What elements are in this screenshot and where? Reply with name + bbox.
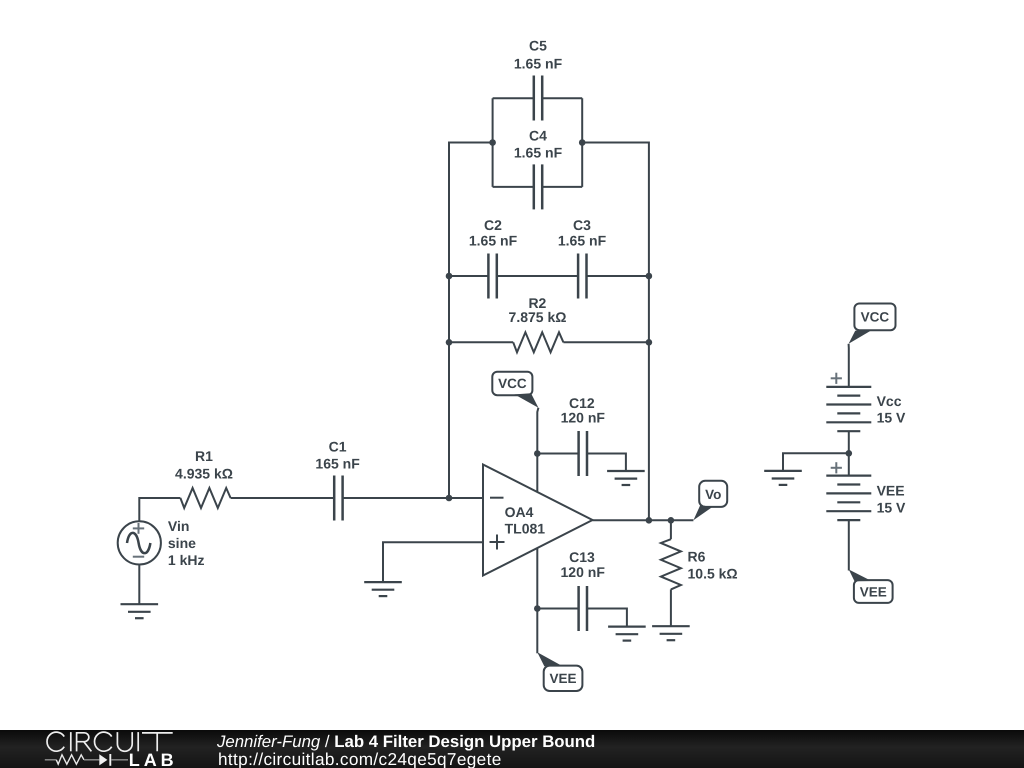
node feedback-output [646, 517, 653, 524]
svg-text:VEE: VEE [860, 584, 887, 599]
wire battery to VEE flag [848, 520, 850, 570]
ground battery [764, 471, 802, 485]
node C2 row left [446, 273, 453, 280]
wire loop left vertical [492, 98, 494, 187]
resistor R2 [509, 295, 567, 352]
svg-text:C5: C5 [529, 38, 547, 54]
wire battery mid [848, 431, 850, 475]
svg-text:4.935 kΩ: 4.935 kΩ [175, 466, 233, 482]
ground C12 [607, 471, 645, 485]
svg-text:LAB: LAB [129, 750, 178, 768]
wire mid right [582, 143, 649, 521]
svg-text:1.65 nF: 1.65 nF [558, 232, 607, 248]
capacitor C1 [315, 439, 360, 521]
node C3 row right [646, 273, 653, 280]
logo resistor [45, 755, 100, 764]
wire mid left [449, 143, 493, 499]
wire VCC flag to battery [848, 344, 850, 387]
node R6 top [668, 517, 675, 524]
svg-text:Vin: Vin [168, 518, 190, 534]
flag VEE battery [849, 570, 893, 603]
node loop right [579, 139, 586, 146]
wire node to C13 [537, 608, 578, 610]
svg-text:C1: C1 [329, 439, 347, 455]
svg-text:120 nF: 120 nF [561, 410, 606, 426]
svg-text:Vo: Vo [705, 487, 721, 502]
svg-text:120 nF: 120 nF [561, 564, 606, 580]
wire VCC stub [537, 408, 538, 492]
node loop left [489, 139, 496, 146]
node R2 row right [646, 339, 653, 346]
wire loop right vertical [581, 98, 583, 187]
wire mid to ground [783, 453, 849, 471]
resistor R1 [175, 448, 233, 508]
node inverting input [446, 495, 453, 502]
wire C2-C3 [498, 275, 578, 277]
wire R2 row right [563, 341, 649, 343]
svg-text:10.5 kΩ: 10.5 kΩ [688, 566, 738, 582]
ground Vin [121, 565, 159, 619]
svg-text:http://circuitlab.com/c24qe5q7: http://circuitlab.com/c24qe5q7egete [218, 749, 502, 768]
wire output [593, 519, 694, 521]
wire plus input [383, 542, 483, 582]
svg-text:C3: C3 [573, 217, 591, 233]
svg-text:sine: sine [168, 535, 196, 551]
svg-text:1.65 nF: 1.65 nF [514, 145, 563, 161]
ground plus input [364, 582, 402, 596]
wire bottom loop left [493, 186, 533, 188]
node VCC stub [534, 450, 541, 457]
svg-text:7.875 kΩ: 7.875 kΩ [509, 309, 567, 325]
wire R1 to C1 [231, 497, 334, 499]
svg-text:1 kHz: 1 kHz [168, 552, 205, 568]
capacitor C3 [558, 217, 607, 298]
svg-text:OA4: OA4 [505, 504, 534, 520]
svg-text:VCC: VCC [861, 310, 890, 325]
flag VEE op-amp [537, 652, 582, 691]
wire node to C12 [537, 453, 578, 455]
svg-text:1.65 nF: 1.65 nF [469, 232, 518, 248]
wire VEE stub [536, 609, 538, 654]
svg-text:C4: C4 [529, 127, 547, 143]
flag VCC battery [849, 304, 896, 344]
svg-text:R6: R6 [688, 548, 706, 564]
svg-text:VEE: VEE [549, 671, 576, 686]
svg-text:15 V: 15 V [877, 410, 906, 426]
logo CIRCUIT [47, 732, 173, 751]
capacitor C12 [561, 395, 606, 476]
capacitor C2 [469, 217, 518, 298]
svg-text:TL081: TL081 [505, 520, 546, 536]
svg-text:15 V: 15 V [877, 499, 906, 515]
wire node to op-amp minus [449, 497, 483, 499]
svg-text:Vcc: Vcc [877, 393, 902, 409]
svg-text:165 nF: 165 nF [315, 456, 360, 472]
wire C13 stub [536, 548, 538, 608]
battery V2 Vcc [826, 373, 906, 432]
wire bottom loop right [543, 186, 582, 188]
wire C2 row left [449, 275, 488, 277]
wire C3 row right [587, 275, 649, 277]
logo diode [99, 754, 107, 765]
wire top loop right [543, 97, 582, 99]
wire C1 to node [343, 497, 449, 499]
svg-text:VCC: VCC [498, 376, 527, 391]
capacitor C4 [514, 127, 563, 209]
capacitor C5 [514, 38, 563, 121]
footer bar [0, 730, 1024, 768]
svg-text:C13: C13 [569, 549, 595, 565]
op-amp OA4 [483, 465, 593, 576]
resistor R6 [661, 520, 738, 626]
wire C12 to ground [588, 454, 626, 472]
capacitor C13 [561, 549, 606, 631]
svg-text:C12: C12 [569, 395, 595, 411]
flag Vo [693, 481, 727, 521]
node battery mid [846, 450, 853, 457]
svg-text:1.65 nF: 1.65 nF [514, 56, 563, 72]
wire top loop left [493, 97, 533, 99]
node C13 [534, 605, 541, 612]
flag VCC op-amp [492, 372, 538, 408]
svg-text:C2: C2 [484, 217, 502, 233]
svg-text:R1: R1 [195, 448, 213, 464]
wire Vin top [139, 498, 180, 521]
wire R2 row left [449, 341, 513, 343]
ground C13 [608, 627, 646, 641]
battery V3 VEE [826, 462, 906, 520]
wire C13 to ground [588, 609, 627, 627]
node R2 row left [446, 339, 453, 346]
svg-text:VEE: VEE [877, 483, 905, 499]
voltage source V1 Vin [118, 518, 205, 568]
ground R6 [652, 626, 690, 640]
